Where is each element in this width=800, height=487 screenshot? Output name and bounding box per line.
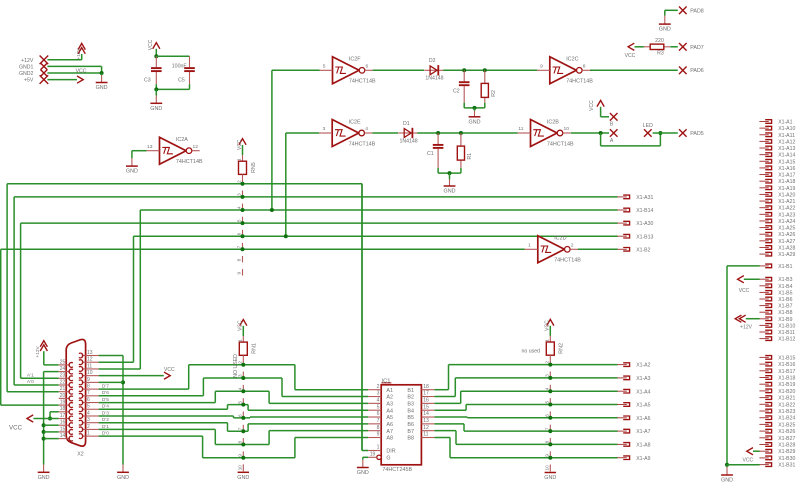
svg-text:2: 2 bbox=[377, 384, 380, 390]
svg-text:no used: no used bbox=[522, 349, 541, 355]
svg-text:25: 25 bbox=[60, 359, 66, 365]
svg-text:14: 14 bbox=[423, 411, 429, 417]
svg-text:16: 16 bbox=[423, 398, 429, 404]
svg-text:9: 9 bbox=[540, 64, 543, 70]
svg-text:VCC: VCC bbox=[148, 39, 154, 50]
svg-text:100nF: 100nF bbox=[172, 64, 187, 70]
svg-text:R1: R1 bbox=[467, 153, 473, 160]
svg-text:2: 2 bbox=[571, 243, 574, 249]
svg-text:X1-B18: X1-B18 bbox=[778, 376, 795, 382]
svg-text:VCC: VCC bbox=[589, 100, 595, 111]
svg-text:3: 3 bbox=[545, 374, 550, 377]
svg-text:X1-B12: X1-B12 bbox=[778, 337, 795, 343]
svg-text:8: 8 bbox=[238, 441, 243, 444]
svg-text:X1-A27: X1-A27 bbox=[778, 239, 795, 245]
svg-text:X1-A31: X1-A31 bbox=[636, 195, 653, 201]
svg-text:X2: X2 bbox=[77, 451, 84, 457]
svg-text:9: 9 bbox=[545, 454, 550, 457]
svg-text:X1-B23: X1-B23 bbox=[778, 409, 795, 415]
svg-text:B3: B3 bbox=[407, 402, 414, 408]
svg-text:GND: GND bbox=[544, 475, 556, 481]
svg-text:D1: D1 bbox=[403, 121, 410, 127]
svg-text:R3: R3 bbox=[657, 51, 664, 57]
svg-text:5: 5 bbox=[237, 219, 242, 222]
svg-text:1N4148: 1N4148 bbox=[400, 138, 418, 144]
svg-text:X1-A5: X1-A5 bbox=[636, 403, 650, 409]
svg-text:B7: B7 bbox=[407, 429, 414, 435]
svg-text:D'6: D'6 bbox=[102, 390, 109, 396]
svg-text:+12V: +12V bbox=[76, 47, 82, 59]
svg-text:23: 23 bbox=[60, 373, 66, 379]
svg-text:X1-B25: X1-B25 bbox=[778, 422, 795, 428]
svg-text:12: 12 bbox=[87, 357, 93, 363]
svg-text:7: 7 bbox=[237, 245, 242, 248]
svg-text:GND: GND bbox=[237, 475, 249, 481]
svg-text:G: G bbox=[386, 456, 390, 462]
svg-text:D'4: D'4 bbox=[102, 404, 109, 410]
svg-text:VCC: VCC bbox=[743, 458, 754, 464]
svg-text:IC1: IC1 bbox=[382, 378, 391, 384]
svg-text:X1-A6: X1-A6 bbox=[636, 416, 650, 422]
svg-text:A2: A2 bbox=[386, 395, 393, 401]
svg-text:X1-A2: X1-A2 bbox=[636, 363, 650, 369]
svg-text:11: 11 bbox=[518, 126, 523, 132]
svg-text:15: 15 bbox=[423, 404, 429, 410]
svg-text:IC2B: IC2B bbox=[547, 119, 559, 125]
svg-text:GND1: GND1 bbox=[19, 64, 34, 70]
svg-text:X1-A9: X1-A9 bbox=[636, 456, 650, 462]
svg-text:X1-A12: X1-A12 bbox=[778, 139, 795, 145]
svg-text:X1-A19: X1-A19 bbox=[778, 186, 795, 192]
svg-text:74HCT245B: 74HCT245B bbox=[382, 467, 412, 473]
svg-text:X1-B11: X1-B11 bbox=[778, 330, 795, 336]
svg-text:+12V: +12V bbox=[35, 345, 41, 357]
svg-text:D2: D2 bbox=[429, 58, 436, 64]
svg-text:GND2: GND2 bbox=[19, 71, 34, 77]
svg-text:X1-A23: X1-A23 bbox=[778, 212, 795, 218]
svg-text:74HCT14B: 74HCT14B bbox=[554, 258, 581, 264]
svg-text:14: 14 bbox=[60, 433, 66, 439]
svg-text:A'1: A'1 bbox=[27, 372, 34, 378]
svg-text:17: 17 bbox=[60, 413, 66, 419]
svg-text:12: 12 bbox=[423, 425, 429, 431]
svg-text:6: 6 bbox=[238, 414, 243, 417]
svg-text:X1-A25: X1-A25 bbox=[778, 226, 795, 232]
svg-text:X1-B19: X1-B19 bbox=[778, 382, 795, 388]
svg-text:4: 4 bbox=[87, 410, 90, 416]
svg-text:19: 19 bbox=[370, 452, 376, 458]
svg-text:A: A bbox=[610, 138, 614, 144]
svg-text:PAD6: PAD6 bbox=[690, 68, 703, 74]
svg-text:X1-A21: X1-A21 bbox=[778, 199, 795, 205]
svg-text:X1-B31: X1-B31 bbox=[778, 463, 795, 469]
svg-text:A7: A7 bbox=[386, 429, 393, 435]
svg-text:VCC: VCC bbox=[164, 367, 175, 373]
svg-text:X1-A11: X1-A11 bbox=[778, 133, 795, 139]
svg-text:X1-A13: X1-A13 bbox=[778, 146, 795, 152]
svg-text:10: 10 bbox=[238, 465, 243, 471]
svg-text:4: 4 bbox=[365, 126, 368, 132]
svg-text:X1-B17: X1-B17 bbox=[778, 369, 795, 375]
svg-text:D'7: D'7 bbox=[102, 384, 109, 390]
svg-text:X1-A14: X1-A14 bbox=[778, 153, 795, 159]
svg-text:C2: C2 bbox=[453, 88, 460, 94]
svg-text:X1-A18: X1-A18 bbox=[778, 179, 795, 185]
svg-text:X1-B2: X1-B2 bbox=[636, 247, 650, 253]
svg-text:3: 3 bbox=[87, 417, 90, 423]
svg-text:A4: A4 bbox=[386, 408, 393, 414]
svg-text:X1-B24: X1-B24 bbox=[778, 416, 795, 422]
svg-text:A1: A1 bbox=[386, 388, 393, 394]
svg-text:GND: GND bbox=[469, 119, 481, 125]
svg-text:7: 7 bbox=[238, 427, 243, 430]
svg-text:X1-A17: X1-A17 bbox=[778, 173, 795, 179]
svg-text:8: 8 bbox=[583, 64, 586, 70]
svg-text:8: 8 bbox=[377, 425, 380, 431]
svg-text:LED: LED bbox=[643, 123, 653, 129]
svg-text:9: 9 bbox=[238, 454, 243, 457]
svg-text:X1-B7: X1-B7 bbox=[778, 304, 792, 310]
svg-text:X1-B1: X1-B1 bbox=[778, 264, 792, 270]
svg-text:IC2C: IC2C bbox=[566, 57, 578, 63]
svg-text:GND: GND bbox=[38, 475, 50, 481]
svg-text:B5: B5 bbox=[407, 415, 414, 421]
svg-text:D'0: D'0 bbox=[102, 431, 109, 437]
svg-text:GND: GND bbox=[444, 189, 456, 195]
svg-text:GND: GND bbox=[126, 169, 138, 175]
svg-text:5: 5 bbox=[323, 64, 326, 70]
svg-text:X1-A3: X1-A3 bbox=[636, 376, 650, 382]
svg-text:PAD5: PAD5 bbox=[690, 131, 703, 137]
svg-text:X1-A8: X1-A8 bbox=[636, 443, 650, 449]
svg-text:X1-A16: X1-A16 bbox=[778, 166, 795, 172]
svg-text:X1-B30: X1-B30 bbox=[778, 456, 795, 462]
svg-text:74HCT14B: 74HCT14B bbox=[176, 159, 203, 165]
svg-text:5: 5 bbox=[87, 404, 90, 410]
svg-text:R2: R2 bbox=[491, 90, 497, 97]
svg-text:6: 6 bbox=[366, 64, 369, 70]
svg-text:7: 7 bbox=[377, 418, 380, 424]
svg-text:D'5: D'5 bbox=[102, 397, 109, 403]
svg-text:1: 1 bbox=[377, 445, 380, 451]
svg-text:8: 8 bbox=[545, 440, 550, 443]
svg-text:X1-A29: X1-A29 bbox=[778, 252, 795, 258]
svg-text:IC2A: IC2A bbox=[176, 137, 188, 143]
svg-text:VCC: VCC bbox=[9, 424, 23, 431]
svg-text:A'0: A'0 bbox=[27, 379, 34, 385]
svg-text:17: 17 bbox=[423, 391, 429, 397]
svg-text:X1-A30: X1-A30 bbox=[636, 221, 653, 227]
svg-text:D'3: D'3 bbox=[102, 410, 109, 416]
svg-text:74HCT14B: 74HCT14B bbox=[349, 79, 376, 85]
svg-text:+5V: +5V bbox=[24, 78, 34, 84]
svg-text:X1-B26: X1-B26 bbox=[778, 429, 795, 435]
svg-text:B6: B6 bbox=[407, 422, 414, 428]
svg-text:C5: C5 bbox=[178, 77, 185, 83]
svg-text:DIR: DIR bbox=[386, 449, 395, 455]
svg-text:RN1: RN1 bbox=[252, 343, 258, 354]
svg-text:IC2D: IC2D bbox=[554, 236, 566, 242]
svg-text:X1-B27: X1-B27 bbox=[778, 436, 795, 442]
svg-text:D'1: D'1 bbox=[102, 424, 109, 430]
svg-text:PAD8: PAD8 bbox=[690, 8, 703, 14]
svg-text:X1-A1: X1-A1 bbox=[778, 120, 792, 126]
svg-text:15: 15 bbox=[60, 426, 66, 432]
svg-text:7: 7 bbox=[545, 427, 550, 430]
svg-text:9: 9 bbox=[377, 432, 380, 438]
svg-text:11: 11 bbox=[87, 363, 92, 369]
svg-text:X1-A15: X1-A15 bbox=[778, 159, 795, 165]
svg-text:6: 6 bbox=[87, 397, 90, 403]
svg-text:8: 8 bbox=[87, 384, 90, 390]
svg-text:X1-A28: X1-A28 bbox=[778, 245, 795, 251]
svg-text:+12V: +12V bbox=[21, 58, 34, 64]
svg-text:IC2E: IC2E bbox=[349, 119, 361, 125]
svg-text:B4: B4 bbox=[407, 408, 414, 414]
svg-text:X1-B21: X1-B21 bbox=[778, 396, 795, 402]
svg-text:10: 10 bbox=[87, 370, 93, 376]
svg-text:13: 13 bbox=[147, 144, 153, 150]
svg-text:X1-B8: X1-B8 bbox=[778, 310, 792, 316]
svg-text:C1: C1 bbox=[427, 151, 434, 157]
svg-text:10: 10 bbox=[564, 126, 570, 132]
svg-text:220: 220 bbox=[655, 38, 664, 44]
svg-text:GND: GND bbox=[721, 478, 733, 484]
svg-text:3: 3 bbox=[238, 374, 243, 377]
svg-text:VCC: VCC bbox=[739, 288, 750, 294]
svg-text:11: 11 bbox=[423, 432, 428, 438]
svg-text:X1-B5: X1-B5 bbox=[778, 290, 792, 296]
svg-text:C3: C3 bbox=[144, 77, 151, 83]
svg-text:A8: A8 bbox=[386, 436, 393, 442]
svg-text:20: 20 bbox=[60, 393, 66, 399]
svg-text:9: 9 bbox=[237, 272, 242, 275]
svg-text:X1-B6: X1-B6 bbox=[778, 297, 792, 303]
svg-text:X1-B14: X1-B14 bbox=[636, 208, 653, 214]
svg-text:X1-B29: X1-B29 bbox=[778, 449, 795, 455]
svg-text:2: 2 bbox=[545, 361, 550, 364]
svg-text:8: 8 bbox=[237, 258, 242, 261]
svg-text:X1-B28: X1-B28 bbox=[778, 443, 795, 449]
svg-text:18: 18 bbox=[423, 384, 429, 390]
svg-text:VCC: VCC bbox=[625, 53, 636, 59]
svg-text:X1-A4: X1-A4 bbox=[636, 389, 650, 395]
svg-text:5: 5 bbox=[377, 404, 380, 410]
svg-text:X1-B9: X1-B9 bbox=[778, 317, 792, 323]
svg-text:RN5: RN5 bbox=[251, 162, 257, 173]
svg-text:X1-B15: X1-B15 bbox=[778, 355, 795, 361]
svg-text:3: 3 bbox=[377, 391, 380, 397]
svg-text:13: 13 bbox=[423, 418, 429, 424]
svg-text:2: 2 bbox=[87, 424, 90, 430]
svg-text:GND: GND bbox=[357, 470, 369, 476]
svg-text:4: 4 bbox=[237, 206, 242, 209]
svg-text:5: 5 bbox=[545, 401, 550, 404]
svg-text:1: 1 bbox=[528, 243, 531, 249]
svg-text:X1-B16: X1-B16 bbox=[778, 362, 795, 368]
svg-text:X1-A22: X1-A22 bbox=[778, 206, 795, 212]
svg-text:3: 3 bbox=[322, 126, 325, 132]
svg-text:X1-B13: X1-B13 bbox=[636, 234, 653, 240]
svg-text:4: 4 bbox=[545, 387, 550, 390]
svg-text:74HCT14B: 74HCT14B bbox=[349, 141, 376, 147]
svg-text:A6: A6 bbox=[386, 422, 393, 428]
svg-text:74HCT14B: 74HCT14B bbox=[566, 79, 593, 85]
svg-text:X1-A26: X1-A26 bbox=[778, 232, 795, 238]
svg-text:X1-B10: X1-B10 bbox=[778, 323, 795, 329]
svg-text:1N4148: 1N4148 bbox=[425, 76, 443, 82]
svg-text:6: 6 bbox=[377, 411, 380, 417]
svg-text:6: 6 bbox=[545, 414, 550, 417]
svg-text:13: 13 bbox=[87, 350, 93, 356]
svg-text:19: 19 bbox=[60, 400, 66, 406]
svg-text:X1-B3: X1-B3 bbox=[778, 277, 792, 283]
svg-text:RN2: RN2 bbox=[559, 343, 565, 354]
svg-text:12: 12 bbox=[193, 144, 199, 150]
svg-text:21: 21 bbox=[60, 386, 66, 392]
svg-text:22: 22 bbox=[60, 379, 66, 385]
svg-text:1: 1 bbox=[87, 431, 90, 437]
svg-text:D'2: D'2 bbox=[102, 417, 109, 423]
svg-text:6: 6 bbox=[237, 232, 242, 235]
svg-text:X1-B20: X1-B20 bbox=[778, 389, 795, 395]
svg-text:3: 3 bbox=[237, 193, 242, 196]
svg-text:GND: GND bbox=[659, 27, 671, 33]
svg-text:B: B bbox=[610, 122, 614, 128]
svg-text:9: 9 bbox=[87, 377, 90, 383]
svg-text:X1-B22: X1-B22 bbox=[778, 402, 795, 408]
svg-text:IC2F: IC2F bbox=[349, 57, 361, 63]
svg-text:X1-A7: X1-A7 bbox=[636, 429, 650, 435]
svg-text:16: 16 bbox=[60, 420, 66, 426]
svg-text:X1-B4: X1-B4 bbox=[778, 284, 792, 290]
svg-text:GND: GND bbox=[150, 106, 162, 112]
svg-text:74HCT14B: 74HCT14B bbox=[547, 141, 574, 147]
svg-text:PAD7: PAD7 bbox=[690, 45, 703, 51]
svg-text:A3: A3 bbox=[386, 402, 393, 408]
svg-text:GND: GND bbox=[117, 475, 129, 481]
svg-text:24: 24 bbox=[60, 366, 66, 372]
svg-text:X1-A10: X1-A10 bbox=[778, 126, 795, 132]
svg-text:VCC: VCC bbox=[76, 68, 87, 74]
svg-text:NO USED: NO USED bbox=[233, 354, 239, 378]
svg-text:4: 4 bbox=[238, 387, 243, 390]
svg-text:2: 2 bbox=[237, 180, 242, 183]
svg-text:B1: B1 bbox=[407, 388, 414, 394]
svg-text:GND: GND bbox=[96, 85, 108, 91]
svg-text:X1-A24: X1-A24 bbox=[778, 219, 795, 225]
svg-text:10: 10 bbox=[545, 465, 550, 471]
svg-text:5: 5 bbox=[238, 401, 243, 404]
svg-text:7: 7 bbox=[87, 390, 90, 396]
svg-text:4: 4 bbox=[377, 398, 380, 404]
svg-text:A5: A5 bbox=[386, 415, 393, 421]
svg-text:18: 18 bbox=[60, 406, 66, 412]
svg-text:B2: B2 bbox=[407, 395, 414, 401]
svg-text:2: 2 bbox=[238, 361, 243, 364]
svg-text:+12V: +12V bbox=[740, 325, 752, 331]
svg-text:X1-A20: X1-A20 bbox=[778, 192, 795, 198]
svg-text:B8: B8 bbox=[407, 436, 414, 442]
